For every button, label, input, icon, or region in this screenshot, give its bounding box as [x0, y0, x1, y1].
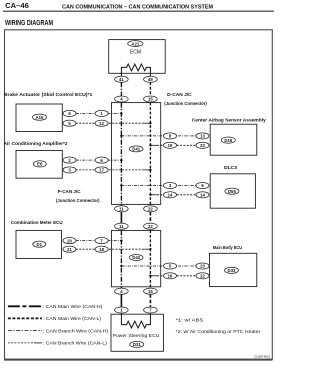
connector oval D41: [129, 146, 143, 152]
junction dot on CAN-H at branch 5: [120, 265, 122, 267]
diagram frame: [5, 30, 273, 360]
junction dot on CAN-H at branch 1: [120, 112, 122, 114]
DLC3 pin 6: [196, 182, 209, 188]
D42 pin 18: [95, 246, 108, 252]
D42 pin 22 top: [144, 223, 158, 229]
branch wire CAN-L to node 12: [76, 122, 144, 124]
branch wire CAN-H to node 7: [76, 240, 122, 242]
branch wire CAN-H to node 1: [76, 112, 122, 114]
svg-text:*1: w/ ABS: *1: w/ ABS: [176, 318, 204, 323]
svg-text:: CAN Main Wire (CAN-H): : CAN Main Wire (CAN-H): [43, 304, 103, 309]
wire CAN-L bus inside D41: [149, 103, 151, 207]
svg-text:Power Steering ECU: Power Steering ECU: [113, 333, 160, 338]
svg-text:16: 16: [168, 274, 173, 279]
branch wire CAN-H to node 6: [76, 159, 122, 161]
Air Conditioning Amplifier box: [16, 151, 62, 179]
legend line CAN Branch Wire CAN-L solid tail: [34, 342, 42, 344]
legend line CAN Branch Wire CAN-H: [8, 330, 42, 332]
ECM pin 49: [144, 76, 158, 82]
D42 pin 7: [95, 238, 108, 244]
svg-text:WIRING DIAGRAM: WIRING DIAGRAM: [5, 18, 53, 27]
junction dot on CAN-H at branch 7: [120, 239, 122, 241]
junction dot on CAN-L at branch 14: [149, 194, 151, 196]
junction connector D41 box: [112, 103, 161, 205]
Airbag sensor pin 13: [196, 133, 209, 139]
Brake Actuator pin 6: [63, 110, 76, 116]
connector oval E6: [33, 161, 46, 167]
legend line CAN Branch Wire CAN-L: [8, 342, 34, 344]
junction dot on CAN-L at branch 16: [149, 275, 151, 277]
wire CAN-L main: ECM pin 49 to J/C pin 15: [149, 82, 151, 96]
DLC3 pin 14: [196, 192, 209, 198]
svg-text:22: 22: [200, 274, 205, 279]
Power Steering ECU box: [111, 314, 164, 351]
legend line CAN Main Wire CAN-H: [8, 305, 42, 307]
svg-text:CAN COMMUNICATION – CAN COMMUN: CAN COMMUNICATION – CAN COMMUNICATION SY…: [62, 4, 213, 10]
svg-text:Center Airbag Sensor Assembly: Center Airbag Sensor Assembly: [192, 117, 266, 123]
D42 pin 16: [163, 273, 176, 279]
connector oval D1: [33, 241, 46, 247]
Brake Actuator pin 5: [63, 120, 76, 126]
wire CAN-H main: ECM pin 41 to J/C pin 4: [120, 82, 122, 96]
Main Body ECU pin 23: [196, 263, 209, 269]
junction dot on CAN-L at branch 18: [149, 248, 151, 250]
ECM U1 box: [109, 40, 166, 74]
branch wire CAN-H to node 3: [121, 185, 196, 187]
wire CAN-L bus inside D42: [149, 230, 151, 289]
svg-text:A15: A15: [36, 115, 44, 120]
Combination Meter pin 21: [63, 246, 76, 252]
junction dot on CAN-H at branch 3: [120, 184, 122, 186]
svg-text:14: 14: [168, 193, 173, 198]
bottom page rule: [4, 359, 273, 361]
svg-text:18: 18: [99, 247, 104, 252]
svg-text:15: 15: [148, 289, 153, 294]
Brake Actuator (Skid Control ECU) box: [16, 104, 62, 132]
svg-text:A21: A21: [131, 41, 139, 46]
Main Body ECU box: [210, 253, 257, 286]
DLC3 box: [210, 174, 255, 208]
D41 pin 19: [163, 142, 176, 148]
svg-text:D31: D31: [133, 342, 141, 347]
svg-text:D55: D55: [228, 189, 236, 194]
svg-text:: CAN Branch Wire (CAN-H): : CAN Branch Wire (CAN-H): [43, 328, 109, 333]
svg-text:21: 21: [67, 247, 72, 252]
D41 pin 4: [115, 96, 129, 102]
A/C Amplifier pin 3: [63, 167, 76, 173]
svg-text:Main Body ECU: Main Body ECU: [213, 245, 243, 251]
svg-text:49: 49: [148, 77, 153, 82]
legend line CAN Main Wire CAN-L: [8, 317, 42, 319]
branch wire CAN-H to node 5: [121, 265, 196, 267]
header rule: [3, 10, 274, 12]
svg-text:22: 22: [200, 143, 205, 148]
svg-text:D42: D42: [132, 255, 140, 260]
D41 pin 8: [163, 133, 176, 139]
svg-text:Brake Actuator (Skid Control E: Brake Actuator (Skid Control ECU)*1: [4, 92, 93, 98]
branch wire CAN-H to node 8: [121, 135, 196, 137]
branch wire CAN-L to node 16: [150, 275, 157, 277]
connector oval D31: [130, 341, 144, 347]
connector oval D55: [225, 188, 239, 194]
wire CAN-L main: D41 pin 22 to D42 pin 22: [149, 212, 151, 223]
D41 pin 17: [95, 167, 108, 173]
svg-text:D16: D16: [224, 138, 232, 143]
svg-text:D33: D33: [228, 268, 236, 273]
svg-text:ECM: ECM: [130, 50, 141, 56]
svg-text:17: 17: [99, 168, 104, 173]
junction dot on CAN-L at branch 17: [149, 169, 151, 171]
D42 pin 4 bottom: [115, 288, 129, 294]
svg-text:22: 22: [148, 224, 153, 229]
wire CAN-H bus inside D42: [120, 230, 122, 289]
branch wire CAN-L to node 18: [76, 248, 144, 250]
svg-text:Air Conditioning Amplifier*2: Air Conditioning Amplifier*2: [4, 141, 68, 147]
svg-text:14: 14: [200, 193, 205, 198]
wire CAN-H main: D41 pin 11 to D42 pin 11: [120, 212, 122, 223]
branch wire CAN-L to node 14: [150, 194, 157, 196]
D41 pin 12: [95, 120, 108, 126]
terminating resistor inside ECM: [121, 64, 150, 76]
svg-text:D41: D41: [132, 147, 140, 152]
D42 pin 15 bottom: [144, 288, 158, 294]
svg-text:15: 15: [148, 97, 153, 102]
D41 pin 14: [163, 192, 176, 198]
junction dot on CAN-H at branch 6: [120, 159, 122, 161]
wire CAN-H main: D42 pin 4 to PS ECU pin 1: [120, 294, 122, 307]
Combination Meter pin 20: [63, 238, 76, 244]
D42 pin 5: [163, 263, 176, 269]
connector oval A21: [128, 41, 143, 47]
Main Body ECU pin 22: [196, 273, 209, 279]
PS ECU pin 1: [115, 307, 129, 313]
D42 pin 11 top: [115, 223, 129, 229]
svg-text:: CAN Main Wire (CAN-L): : CAN Main Wire (CAN-L): [43, 316, 102, 321]
svg-text:12: 12: [99, 121, 104, 126]
connector oval D42: [129, 255, 143, 261]
D41 pin 3: [163, 182, 176, 188]
branch wire CAN-L to node 19: [150, 144, 157, 146]
svg-text:DLC3: DLC3: [224, 165, 237, 171]
terminating resistor inside PS ECU: [121, 313, 150, 328]
svg-text:(Junction Connector): (Junction Connector): [164, 101, 207, 107]
D41 pin 15: [144, 96, 158, 102]
junction dot on CAN-H at branch 8: [120, 135, 122, 137]
Center Airbag Sensor Assembly box: [210, 124, 257, 155]
svg-text:D-CAN J/C: D-CAN J/C: [167, 92, 192, 98]
svg-text:11: 11: [119, 224, 124, 229]
svg-text:41: 41: [119, 77, 124, 82]
svg-text:19: 19: [168, 143, 173, 148]
svg-text:22: 22: [148, 207, 153, 212]
svg-text:CA–46: CA–46: [5, 3, 29, 10]
svg-text:(Junction Connector): (Junction Connector): [56, 198, 100, 204]
svg-text:: CAN Branch Wire (CAN-L): : CAN Branch Wire (CAN-L): [43, 341, 108, 346]
D41 pin 6: [95, 157, 108, 163]
svg-text:P-CAN J/C: P-CAN J/C: [58, 189, 82, 195]
Combination Meter ECU box: [16, 230, 62, 258]
branch wire CAN-L to node 17: [76, 169, 144, 171]
D41 pin 1: [95, 110, 108, 116]
svg-text:13: 13: [200, 134, 205, 139]
svg-text:23: 23: [200, 264, 205, 269]
junction dot on CAN-L at branch 19: [149, 144, 151, 146]
svg-text:11: 11: [119, 207, 124, 212]
Airbag sensor pin 22: [196, 142, 209, 148]
svg-text:E6: E6: [37, 162, 43, 167]
D41 pin 11 bottom: [115, 206, 129, 212]
ECM pin 41: [115, 76, 129, 82]
svg-text:20: 20: [67, 238, 72, 243]
svg-text:D1: D1: [37, 242, 43, 247]
connector oval D16: [221, 137, 235, 143]
PS ECU pin 7: [144, 307, 158, 313]
A/C Amplifier pin 2: [63, 157, 76, 163]
svg-text:Combination Meter ECU: Combination Meter ECU: [11, 220, 63, 226]
connector oval D33: [225, 267, 239, 273]
junction connector D42 box: [112, 230, 161, 286]
wire CAN-L main: D42 pin 15 to PS ECU pin 7: [149, 294, 151, 307]
junction dot on CAN-L at branch 12: [149, 122, 151, 124]
svg-text:C115674E02: C115674E02: [254, 355, 271, 359]
wire CAN-H bus inside D41: [120, 103, 122, 207]
svg-text:*2: w/ Air Conditioning or PTC: *2: w/ Air Conditioning or PTC Heater: [176, 329, 261, 334]
connector oval A15: [33, 114, 47, 120]
D41 pin 22 bottom: [144, 206, 158, 212]
